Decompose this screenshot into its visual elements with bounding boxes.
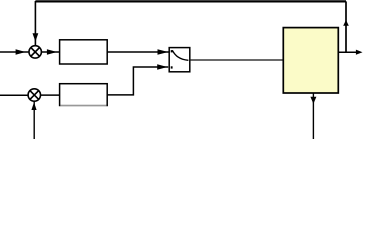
plant block (yellow subsystem) bbox=[283, 28, 338, 93]
wire switch output to plant block bbox=[190, 59, 283, 61]
switch lever bbox=[172, 50, 188, 60]
arrowhead up into summing junction 2 bbox=[31, 102, 36, 110]
arrowhead into switch input 2 bbox=[157, 64, 167, 70]
switch input port dot 2 bbox=[171, 66, 173, 68]
wire plant bottom output going down off-page bbox=[312, 93, 314, 139]
wire summing junction 1 to block 1 bbox=[42, 51, 60, 53]
arrowhead up on feedback branch bbox=[343, 20, 349, 26]
arrowhead input 1 bbox=[16, 49, 26, 55]
block 1 (upper transfer-function block) bbox=[60, 40, 108, 64]
wire summing junction 2 to block 2 bbox=[41, 94, 60, 96]
arrowhead into block 1 bbox=[47, 49, 57, 55]
block 2 lighter bottom border bbox=[60, 105, 106, 107]
arrowhead into switch input 1 bbox=[158, 49, 169, 55]
wire input 2 from left edge bbox=[0, 94, 28, 96]
wire from bottom edge up into summing junction 2 bbox=[33, 101, 35, 139]
arrowhead down into summing junction 1 bbox=[33, 33, 39, 41]
switch input port dot 1 bbox=[171, 50, 173, 52]
switch block body bbox=[169, 48, 190, 72]
block 2 (lower transfer-function block) bbox=[60, 84, 108, 106]
wire input 1 from left edge bbox=[0, 51, 29, 53]
wire plant output to right bbox=[338, 51, 358, 53]
wire feedback top horizontal bbox=[35, 0, 346, 2]
wire block 2 to switch input 2 (right, up, right) bbox=[107, 67, 168, 95]
wire feedback branch vertical up bbox=[345, 1, 347, 52]
wire feedback left vertical drop into summing junction 1 bbox=[34, 1, 36, 45]
summing junction 2 bbox=[28, 89, 40, 101]
wire block 1 to switch input 1 bbox=[107, 51, 169, 53]
summing junction 1 bbox=[29, 46, 41, 58]
arrowhead output right bbox=[356, 50, 363, 55]
arrowhead down on plant bottom wire bbox=[310, 97, 316, 104]
